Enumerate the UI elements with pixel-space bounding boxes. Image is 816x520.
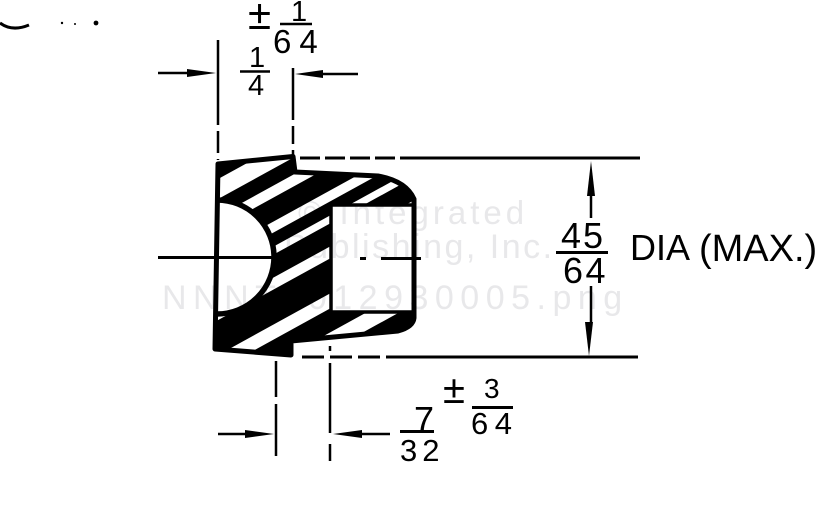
bottom dimension: arrows [218,433,248,436]
right dimension: extension lines [300,157,412,160]
svg-text:64: 64 [563,250,608,291]
bottom dimension: extension lines [275,361,278,456]
svg-text:64: 64 [273,23,326,60]
top dimension: extension lines [218,40,293,160]
scan artifact: dots [61,22,63,24]
svg-text:DIA: DIA [630,227,690,268]
ball socket arc [217,200,274,314]
svg-text:±: ± [248,0,271,38]
svg-text:32: 32 [400,433,444,468]
part outline [215,157,414,356]
svg-text:4: 4 [248,70,264,102]
svg-text:(MAX.): (MAX.) [699,228,816,270]
bore recess rectangle [331,202,413,312]
right dimension: vertical line and arrows [587,161,595,196]
centerline [158,258,421,259]
svg-text:64: 64 [471,406,518,441]
svg-text:±: ± [443,368,465,412]
top dimension: arrows [158,73,358,74]
scan artifact: small curve top-left [0,23,29,28]
svg-text:3: 3 [484,373,500,404]
